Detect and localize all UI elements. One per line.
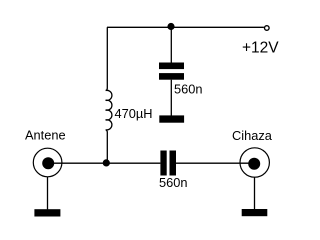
svg-text:Antene: Antene (25, 128, 66, 143)
svg-text:560n: 560n (159, 175, 187, 190)
svg-text:560n: 560n (174, 81, 202, 96)
svg-text:Cihaza: Cihaza (232, 128, 273, 143)
svg-text:+12V: +12V (242, 40, 279, 57)
svg-text:470µH: 470µH (115, 106, 153, 121)
